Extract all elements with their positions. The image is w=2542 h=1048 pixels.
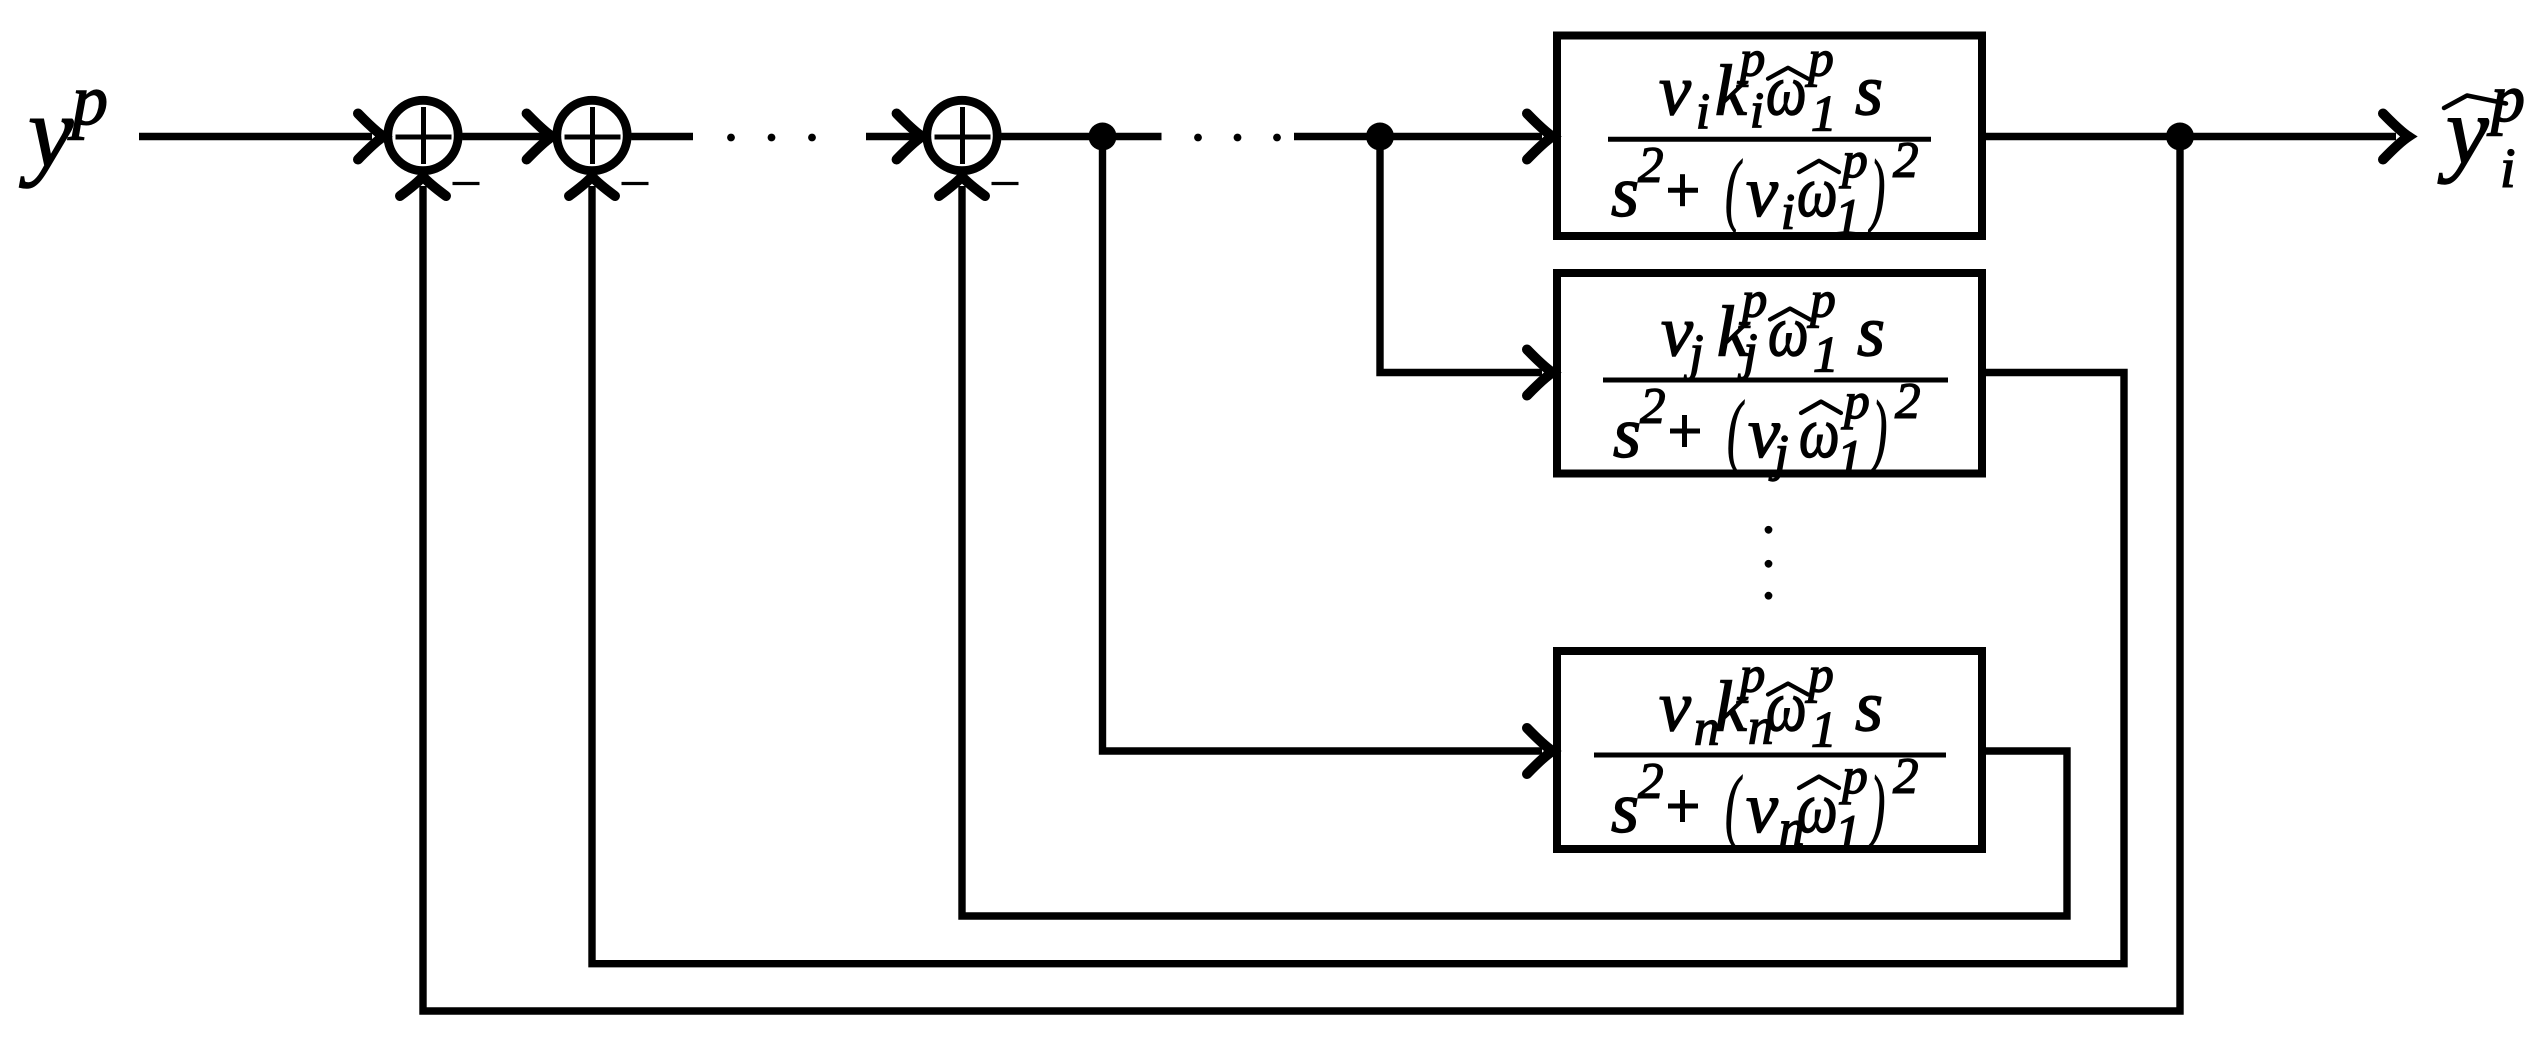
svg-text:ω: ω bbox=[1766, 668, 1807, 748]
svg-text:p: p bbox=[1841, 374, 1870, 430]
svg-text:2: 2 bbox=[1893, 133, 1919, 189]
svg-text:s: s bbox=[1613, 393, 1641, 473]
svg-text:1: 1 bbox=[1837, 431, 1863, 487]
svg-text:ν: ν bbox=[1746, 152, 1778, 232]
svg-text:2: 2 bbox=[1895, 374, 1921, 430]
svg-text:i: i bbox=[1781, 185, 1795, 241]
svg-text:ν: ν bbox=[1661, 292, 1693, 372]
svg-text:1: 1 bbox=[1811, 703, 1837, 759]
svg-text:ω: ω bbox=[1799, 394, 1840, 474]
svg-text:2: 2 bbox=[1893, 749, 1919, 805]
svg-text:p: p bbox=[1737, 32, 1766, 88]
svg-text:s: s bbox=[1855, 51, 1883, 131]
svg-text:p: p bbox=[1737, 648, 1766, 704]
svg-text:ω: ω bbox=[1768, 293, 1809, 373]
svg-text:ω: ω bbox=[1766, 52, 1807, 132]
svg-text:ω: ω bbox=[1797, 769, 1838, 849]
svg-text:ν: ν bbox=[1659, 667, 1691, 747]
svg-text:): ) bbox=[1869, 385, 1887, 475]
svg-text:ν: ν bbox=[1659, 51, 1691, 131]
svg-text:s: s bbox=[1857, 292, 1885, 372]
svg-text:1: 1 bbox=[1811, 87, 1837, 143]
svg-text:ν: ν bbox=[1746, 768, 1778, 848]
svg-text:y: y bbox=[19, 76, 74, 189]
svg-text:2: 2 bbox=[1638, 754, 1664, 810]
svg-text:ω: ω bbox=[1797, 153, 1838, 233]
svg-text:): ) bbox=[1867, 760, 1885, 850]
svg-text:p: p bbox=[67, 60, 108, 140]
svg-text:p: p bbox=[1739, 273, 1768, 329]
svg-text:i: i bbox=[1750, 84, 1764, 140]
svg-text:i: i bbox=[2500, 138, 2516, 200]
svg-text:p: p bbox=[1839, 749, 1868, 805]
svg-text:p: p bbox=[1805, 648, 1834, 704]
svg-text:p: p bbox=[1807, 273, 1836, 329]
svg-text:s: s bbox=[1855, 667, 1883, 747]
svg-text:s: s bbox=[1611, 768, 1639, 848]
svg-text:i: i bbox=[1696, 85, 1710, 141]
svg-text:1: 1 bbox=[1835, 190, 1861, 246]
svg-text:1: 1 bbox=[1813, 328, 1839, 384]
svg-text:2: 2 bbox=[1640, 379, 1666, 435]
svg-text:s: s bbox=[1611, 152, 1639, 232]
svg-text:1: 1 bbox=[1835, 806, 1861, 862]
svg-text:p: p bbox=[2487, 60, 2525, 136]
svg-text:): ) bbox=[1867, 144, 1885, 234]
svg-text:p: p bbox=[1805, 32, 1834, 88]
svg-text:2: 2 bbox=[1638, 138, 1664, 194]
svg-text:p: p bbox=[1839, 133, 1868, 189]
